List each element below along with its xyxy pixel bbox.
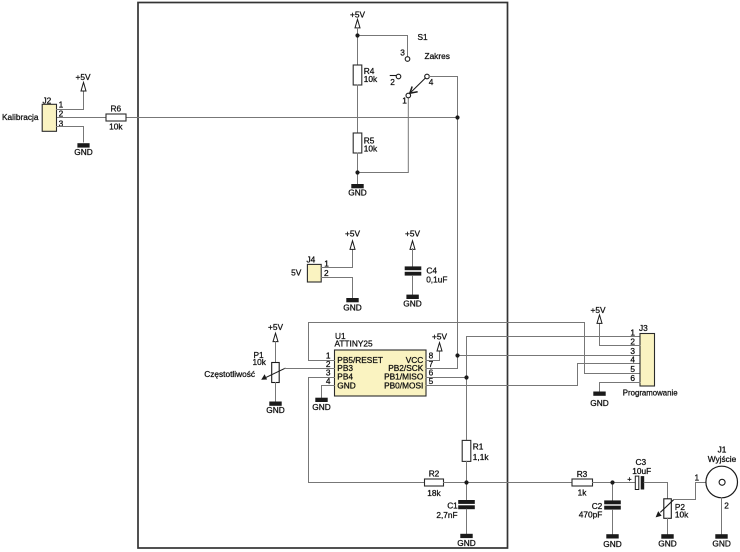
wire J3 pin2 to +5V: [600, 323, 641, 345]
svg-text:GND: GND: [266, 405, 284, 415]
svg-text:+: +: [627, 474, 632, 483]
svg-text:2: 2: [324, 268, 329, 278]
wire P2 wiper to J1 pin1: [674, 483, 707, 500]
wire U1 pin6 MISO to node: [426, 377, 467, 379]
+5V symbol at J4: [345, 229, 360, 250]
potentiometer P1: [253, 350, 286, 383]
wire J2 pin1 to +5V: [57, 91, 84, 110]
svg-text:+5V: +5V: [268, 322, 283, 332]
svg-text:1: 1: [402, 95, 407, 105]
svg-text:+5V: +5V: [432, 332, 447, 342]
node main wire / S1 junction: [455, 115, 459, 119]
potentiometer P2: [656, 499, 690, 520]
node R3/C2 junction: [610, 480, 614, 484]
ground at C1: [457, 534, 475, 548]
svg-text:GND: GND: [337, 380, 355, 390]
switch S1: [390, 32, 450, 105]
resistor R3: [572, 469, 593, 497]
wire R2 to R3: [444, 482, 573, 484]
ground at J4: [343, 298, 361, 313]
wire main horizontal net from J2 pin2 to S1 junction: [57, 117, 458, 119]
wire U1 pin1 RESET to J3 pin5: [309, 323, 641, 374]
svg-text:10k: 10k: [675, 509, 689, 519]
svg-text:Wyjście: Wyjście: [708, 454, 737, 464]
node R5 bottom junction: [355, 170, 359, 174]
S1 contact 2: [390, 75, 396, 77]
S1 contact 3: [405, 57, 410, 62]
svg-text:C1: C1: [447, 501, 458, 511]
svg-text:1,1k: 1,1k: [473, 452, 490, 462]
wire SCK node to J3 pin3: [458, 355, 641, 357]
wire R1 to bottom rail: [466, 461, 468, 482]
wire U1 pin2 to P1 wiper: [285, 368, 335, 370]
S1 contact 4: [425, 74, 430, 79]
ground at J1: [712, 534, 730, 548]
wire J1 pin2 to GND: [721, 498, 723, 534]
svg-text:0,1uF: 0,1uF: [426, 275, 447, 285]
svg-text:3: 3: [400, 48, 405, 58]
connector J3: [639, 323, 655, 386]
wire U1 pin4 to GND: [322, 386, 335, 398]
wire U1 pin7 SCK up to node: [426, 356, 458, 369]
wire J3 pin6 to GND: [600, 383, 641, 392]
svg-text:6: 6: [630, 373, 635, 383]
capacitor C2: [579, 483, 621, 520]
svg-text:GND: GND: [343, 303, 361, 313]
ground below R5: [348, 184, 366, 198]
S1 contact 1: [406, 93, 411, 98]
+5V symbol at U1 VCC: [432, 332, 447, 351]
svg-text:Programowanie: Programowanie: [623, 387, 678, 397]
svg-text:GND: GND: [403, 299, 421, 309]
svg-text:Zakres: Zakres: [425, 51, 450, 61]
ground at P1: [266, 402, 284, 416]
svg-text:4: 4: [429, 77, 434, 87]
svg-text:GND: GND: [457, 538, 475, 548]
resistor R4: [353, 65, 378, 85]
svg-text:1k: 1k: [578, 487, 588, 497]
svg-text:ATTINY25: ATTINY25: [335, 339, 373, 349]
svg-text:GND: GND: [74, 147, 92, 157]
wire R4 to R5: [357, 85, 359, 133]
wire U1 pin3 to R2: [309, 378, 425, 483]
+5V symbol at P1: [268, 322, 283, 342]
svg-text:R1: R1: [473, 442, 484, 452]
wire S1 pin4 to vertical bus: [429, 77, 457, 118]
svg-text:R2: R2: [429, 468, 440, 478]
capacitor C3 polarized: [627, 457, 651, 490]
svg-text:GND: GND: [590, 398, 608, 408]
svg-text:GND: GND: [348, 188, 366, 198]
ground at C4: [403, 295, 421, 309]
ground at J2: [74, 143, 92, 157]
op-amp U1 (ATTINY25): [335, 331, 427, 396]
wire C3 to P2 top: [644, 483, 667, 499]
+5V symbol at J2: [76, 72, 91, 91]
capacitor C1: [436, 483, 474, 521]
wire C2 to GND: [612, 510, 614, 535]
wire +5V to P1: [275, 342, 277, 363]
ground at C2: [603, 534, 621, 549]
svg-text:470pF: 470pF: [579, 509, 603, 519]
svg-text:10k: 10k: [364, 74, 378, 84]
svg-text:R6: R6: [110, 104, 121, 114]
wire R3 to C3: [593, 482, 636, 484]
capacitor C4: [405, 266, 448, 285]
wire +5V down to R4: [357, 28, 359, 65]
svg-text:10k: 10k: [253, 357, 267, 367]
+5V symbol at J3: [591, 305, 606, 323]
wire J4 pin2 to GND: [321, 278, 352, 299]
wire P2 to GND: [667, 518, 669, 534]
wire MISO node up and right to J3 pin1: [467, 337, 641, 378]
resistor R6: [106, 104, 126, 132]
resistor R1: [462, 440, 489, 462]
connector J1 output jack: [706, 445, 738, 498]
connector J2: [42, 95, 56, 131]
wire R5 to GND: [357, 153, 359, 184]
svg-text:+5V: +5V: [350, 10, 365, 20]
+5V symbol top center: [350, 10, 365, 28]
node R1/R2/C1 junction: [464, 480, 468, 484]
svg-text:Kalibracja: Kalibracja: [2, 112, 39, 122]
svg-text:+5V: +5V: [591, 305, 606, 315]
+5V symbol at C4: [405, 229, 420, 250]
node SCK junction: [455, 353, 459, 357]
svg-text:1: 1: [695, 472, 700, 482]
svg-text:R3: R3: [577, 469, 588, 479]
ground at U1 pin4: [312, 398, 330, 413]
svg-text:2: 2: [59, 109, 64, 119]
resistor R5: [353, 133, 378, 153]
wire +5V to C4: [412, 249, 414, 267]
svg-text:Częstotliwość: Częstotliwość: [204, 369, 255, 379]
svg-text:J4: J4: [307, 255, 316, 265]
wire J2 pin3 to GND: [57, 127, 84, 143]
svg-text:GND: GND: [603, 539, 621, 549]
wire U1 pin5 MOSI to J3 pin4: [426, 364, 640, 386]
svg-text:+5V: +5V: [405, 229, 420, 239]
svg-text:10uF: 10uF: [632, 466, 651, 476]
wire C1 to GND: [466, 509, 468, 534]
svg-text:GND: GND: [712, 539, 730, 549]
svg-text:S1: S1: [418, 32, 429, 42]
svg-text:+5V: +5V: [76, 72, 91, 82]
resistor R2: [425, 468, 444, 498]
svg-text:5V: 5V: [291, 267, 302, 277]
wire C4 to GND: [412, 276, 414, 295]
connector J4: [291, 255, 321, 283]
wire U1 pin8 VCC to +5V: [426, 351, 440, 361]
svg-text:PB0/MOSI: PB0/MOSI: [384, 380, 423, 390]
wire S1 pin1 down and left to R5 bottom node: [358, 98, 409, 173]
svg-text:10k: 10k: [109, 122, 123, 132]
svg-text:2,7nF: 2,7nF: [436, 510, 457, 520]
svg-text:2: 2: [724, 501, 729, 511]
svg-text:2: 2: [390, 77, 395, 87]
ground at P2: [658, 534, 676, 548]
svg-text:GND: GND: [312, 402, 330, 412]
svg-text:+5V: +5V: [345, 229, 360, 239]
wire MISO node down to R1: [466, 378, 468, 441]
node MISO junction: [464, 375, 468, 379]
svg-text:10k: 10k: [364, 143, 378, 153]
svg-text:J3: J3: [639, 323, 648, 333]
wire J4 pin1 to +5V: [321, 249, 352, 267]
node top +5V junction: [355, 33, 359, 37]
wire P1 to GND: [275, 383, 277, 402]
S1 wiper arm with arrowhead: [410, 78, 425, 93]
wire node to S1 pin3: [358, 36, 408, 57]
wire vertical bus down to SCK node: [457, 118, 459, 356]
ground at J3: [590, 392, 608, 409]
border frame: [138, 3, 508, 549]
svg-text:18k: 18k: [427, 488, 441, 498]
svg-text:GND: GND: [658, 539, 676, 549]
